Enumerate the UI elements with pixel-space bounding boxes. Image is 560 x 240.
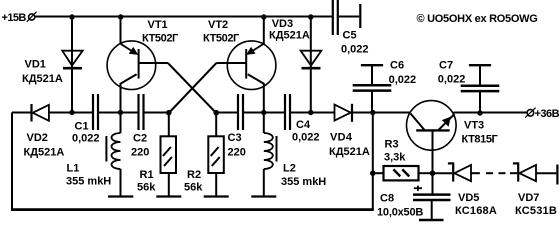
wire VT2 base to R1 node (cross coupling): [169, 63, 217, 113]
svg-text:КТ502Г: КТ502Г: [203, 32, 240, 44]
capacitor C8 plus sign: [414, 186, 422, 191]
wire R2 node to C3: [216, 112, 237, 114]
diode VD2: [32, 104, 49, 122]
wire C1 to C2: [99, 112, 138, 114]
node end terminal bar: [556, 165, 558, 185]
svg-text:КС168А: КС168А: [455, 205, 497, 217]
svg-text:VD4: VD4: [330, 131, 353, 143]
svg-text:C7: C7: [439, 59, 453, 71]
node +36V terminal: [525, 108, 535, 118]
wire VT2 emitter from rail: [263, 17, 265, 44]
svg-text:VD1: VD1: [25, 58, 46, 70]
svg-text:КС531В: КС531В: [515, 205, 557, 217]
svg-text:10,0x50В: 10,0x50В: [377, 206, 423, 218]
capacitor C8: [413, 195, 451, 220]
wire dashed link: [486, 172, 493, 174]
svg-text:КТ815Г: КТ815Г: [462, 133, 499, 145]
capacitor C3: [238, 94, 243, 130]
transistor VT3: [407, 101, 457, 151]
inductor L2: [251, 113, 276, 197]
svg-text:VT1: VT1: [148, 19, 168, 31]
wire bottom rail: [11, 208, 374, 211]
resistor R3: [373, 166, 433, 180]
svg-text:0,022: 0,022: [72, 133, 100, 145]
svg-text:КД521А: КД521А: [24, 147, 65, 159]
capacitor C1: [93, 94, 98, 130]
wire VD3 vertical: [310, 17, 312, 113]
diode VD1: [62, 51, 82, 68]
svg-text:355 mkH: 355 mkH: [281, 176, 326, 188]
svg-text:220: 220: [228, 146, 246, 158]
node +15V terminal: [27, 12, 37, 22]
zener diode VD5: [448, 162, 471, 181]
wire VT1 base to R2 node (cross coupling): [168, 63, 216, 113]
svg-text:56k: 56k: [184, 182, 203, 194]
svg-text:C5: C5: [343, 29, 357, 41]
svg-text:КТ502Г: КТ502Г: [142, 32, 179, 44]
svg-text:VD5: VD5: [458, 192, 479, 204]
svg-text:C3: C3: [228, 132, 242, 144]
wire VT3 base down: [432, 132, 434, 194]
svg-text:C6: C6: [390, 59, 404, 71]
svg-text:C1: C1: [75, 120, 89, 132]
svg-text:C4: C4: [296, 119, 311, 131]
transistor VT1: [107, 41, 168, 113]
capacitor C6: [353, 65, 392, 113]
svg-text:R2: R2: [187, 169, 201, 181]
svg-text:0,022: 0,022: [292, 131, 320, 143]
wire VD4 to VT3 collector: [352, 112, 410, 114]
svg-text:3,3k: 3,3k: [384, 152, 406, 164]
wire VT1 emitter from rail: [120, 17, 122, 44]
node mid rail junction dots: [69, 110, 482, 116]
svg-text:0,022: 0,022: [389, 74, 417, 86]
wire VD2 to C1: [49, 112, 92, 114]
svg-text:VD3: VD3: [272, 18, 293, 30]
svg-text:R1: R1: [140, 169, 154, 181]
svg-text:КД521А: КД521А: [22, 73, 63, 85]
capacitor C7: [461, 65, 500, 113]
svg-text:L1: L1: [67, 162, 80, 174]
wire mid rail left: [12, 112, 31, 114]
wire top rail: [36, 16, 333, 18]
svg-text:220: 220: [131, 146, 149, 158]
wire R3 node to VD5: [433, 172, 453, 174]
svg-text:C2: C2: [133, 133, 147, 145]
svg-text:КД521А: КД521А: [269, 30, 310, 42]
svg-text:+36В: +36В: [535, 108, 560, 120]
diode VD4: [335, 104, 353, 122]
wire VD1 vertical: [71, 17, 73, 113]
svg-text:VT2: VT2: [208, 19, 228, 31]
transistor VT2: [216, 41, 276, 113]
svg-text:VT3: VT3: [464, 119, 484, 131]
node R3 junction dots: [370, 170, 435, 176]
svg-text:+15В: +15В: [2, 12, 27, 24]
svg-text:VD7: VD7: [518, 192, 539, 204]
zener diode VD7: [513, 162, 536, 181]
svg-text:VD2: VD2: [27, 132, 48, 144]
svg-text:C8: C8: [380, 192, 394, 204]
wire VD4 node down to R3 node and ground rail riser: [372, 113, 374, 210]
capacitor C4: [285, 94, 290, 130]
svg-text:R3: R3: [385, 138, 399, 150]
wire left edge vertical: [11, 113, 13, 211]
svg-text:355 mkH: 355 mkH: [66, 175, 111, 187]
svg-text:L2: L2: [283, 162, 296, 174]
wire C3 to C4: [244, 112, 284, 114]
svg-text:0,022: 0,022: [341, 43, 369, 55]
wire VD5 to dashed link: [472, 172, 480, 174]
node top rail junction dots: [69, 14, 313, 19]
svg-text:56k: 56k: [137, 182, 156, 194]
svg-text:© UO5OHX ex RO5OWG: © UO5OHX ex RO5OWG: [417, 13, 538, 25]
svg-text:КД521А: КД521А: [329, 146, 370, 158]
resistor R2: [204, 113, 229, 197]
wire C2 to R1 node: [145, 112, 169, 114]
resistor R1: [156, 113, 181, 197]
svg-text:0,022: 0,022: [438, 74, 466, 86]
capacitor C2: [139, 94, 144, 130]
wire C4 to VD4: [291, 112, 335, 114]
diode VD3: [301, 51, 322, 68]
wire VD7 to end terminal: [537, 172, 557, 174]
wire VT3 emitter to +36V: [454, 112, 528, 114]
capacitor C5: [333, 0, 361, 35]
inductor L1: [106, 113, 133, 197]
